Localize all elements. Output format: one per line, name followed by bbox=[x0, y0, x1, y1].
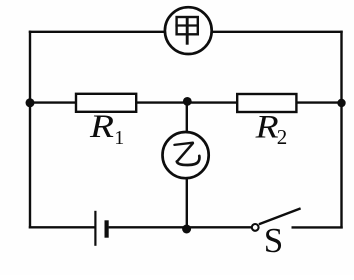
junction node left (middle rail / left wire) bbox=[26, 98, 35, 107]
junction node right (middle rail / right wire) bbox=[337, 99, 345, 107]
wire right side bbox=[340, 31, 342, 229]
glyph jia vertical stroke with tail bbox=[186, 16, 189, 44]
glyph jia middle horizontal stroke bbox=[175, 24, 199, 26]
junction node middle (rail / yi branch) bbox=[183, 97, 192, 106]
wire bottom right (switch to right corner) bbox=[292, 226, 343, 228]
wire bottom middle (battery to switch) bbox=[109, 226, 252, 228]
meter jia (ammeter) circle bbox=[165, 7, 212, 54]
meter yi (voltmeter) circle bbox=[163, 132, 209, 178]
junction node bottom (yi branch / bottom wire) bbox=[182, 225, 191, 234]
wire left side bbox=[29, 31, 31, 229]
glyph jia box bbox=[177, 17, 198, 34]
wire middle horizontal (R1-R2 rail) bbox=[30, 101, 342, 103]
battery long plate (positive) bbox=[94, 211, 96, 246]
wire top side bbox=[29, 31, 343, 33]
svg-text:2: 2 bbox=[277, 125, 288, 149]
glyph yi stroke bottom hook bbox=[177, 156, 200, 165]
svg-text:1: 1 bbox=[114, 127, 124, 149]
resistor R1 box bbox=[76, 94, 136, 112]
glyph yi stroke diagonal bbox=[177, 143, 193, 161]
wire meter-yi branch vertical bbox=[186, 102, 188, 230]
wire bottom left (battery branch) bbox=[29, 226, 96, 228]
svg-text:R: R bbox=[254, 109, 278, 145]
svg-text:S: S bbox=[264, 221, 283, 260]
svg-text:R: R bbox=[89, 109, 114, 145]
glyph yi stroke top bbox=[174, 143, 193, 145]
resistor R2 box bbox=[237, 94, 296, 112]
switch S blade bbox=[259, 208, 301, 224]
switch S pivot circle bbox=[252, 224, 259, 231]
battery short thick plate (negative) bbox=[104, 220, 108, 237]
